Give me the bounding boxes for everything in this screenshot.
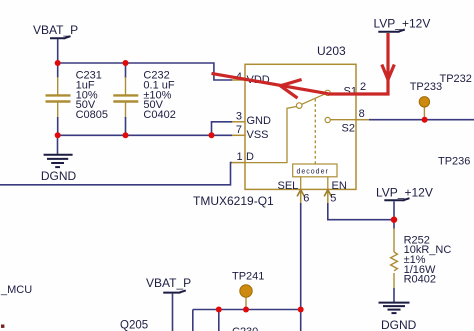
pin 5 EN (324, 180, 347, 204)
svg-text:TP241: TP241 (232, 270, 264, 282)
switch arm to S1 (302, 94, 326, 105)
pin 2 S1 (344, 81, 370, 98)
test point TP233 (410, 81, 442, 120)
pin 4 VDD (232, 71, 270, 86)
wire C232 bottom lead (125, 117, 127, 135)
svg-text:S2: S2 (342, 122, 355, 134)
wire C231 bottom lead (57, 117, 59, 135)
wire SEL net down (300, 203, 302, 310)
svg-text:R0402: R0402 (404, 274, 436, 286)
op-amp U203 body (193, 44, 356, 208)
capacitor C231 (46, 77, 71, 119)
wire branch to GND pin3 (212, 122, 233, 136)
svg-text:LVP_+12V: LVP_+12V (376, 186, 433, 200)
clipped label bottom-left (1, 325, 4, 328)
wire bottom left vertical (192, 310, 194, 331)
dashed control line (314, 99, 316, 164)
wire C231 top lead (57, 63, 59, 78)
label R252 values (404, 234, 452, 285)
pin 1 D (232, 151, 255, 163)
switch S1 contact circle (325, 90, 330, 95)
node C232 top (123, 60, 129, 66)
power port VBAT_P (top-left) (33, 23, 78, 39)
svg-text:TMUX6219-Q1: TMUX6219-Q1 (193, 194, 274, 208)
capacitor C232 (113, 77, 138, 119)
pin 7 VSS (232, 124, 269, 141)
svg-text:C0402: C0402 (143, 109, 175, 121)
svg-text:C0805: C0805 (76, 109, 108, 121)
label C231 values (76, 69, 108, 121)
highlighted red wire from LVP_+12V to S1 (212, 33, 389, 94)
pin 3 GND (232, 111, 271, 128)
svg-text:S1: S1 (344, 86, 357, 98)
decoder box (293, 164, 337, 177)
svg-text:Q205: Q205 (120, 319, 148, 331)
svg-text:8: 8 (359, 108, 365, 120)
decoder to SEL link (300, 177, 302, 190)
svg-text:VBAT_P: VBAT_P (33, 23, 78, 37)
svg-text:TP236: TP236 (438, 155, 470, 167)
svg-text:VBAT_P: VBAT_P (146, 276, 191, 290)
svg-text:5: 5 (330, 192, 336, 204)
svg-text:VSS: VSS (247, 129, 269, 141)
wire top rail (58, 63, 233, 80)
wire S2 net to right edge (369, 119, 474, 121)
switch S1 contact line (330, 93, 356, 95)
node SEL bottom (298, 307, 304, 313)
svg-text:DGND: DGND (381, 318, 417, 331)
svg-text:1: 1 (237, 151, 243, 163)
svg-text:DGND: DGND (41, 169, 77, 183)
svg-text:LVP_+12V: LVP_+12V (374, 17, 431, 31)
svg-text:2: 2 (360, 81, 366, 93)
test point TP241 (232, 270, 264, 309)
red arrow (up-left) on diagonal segment (280, 80, 301, 99)
node bottom-1 (216, 307, 222, 313)
node C231 bottom (55, 132, 61, 138)
switch S2 contact line (330, 119, 356, 121)
svg-text:C230: C230 (232, 326, 258, 331)
ground DGND (left) (41, 155, 77, 183)
svg-text:decoder: decoder (297, 169, 329, 176)
pin 6 SEL (278, 180, 310, 204)
svg-text:_MCU: _MCU (0, 284, 32, 296)
node LVP/EN/R252 (391, 217, 397, 223)
wire SEL net continues down (300, 310, 302, 331)
wire resistor to ground (393, 288, 395, 303)
label C232 values (143, 69, 175, 121)
node TP233 (422, 117, 428, 123)
power port LVP_+12V (top) (374, 17, 431, 32)
wire bottom rail to VSS pin7 (58, 134, 233, 136)
resistor R252 (391, 228, 398, 289)
wire EN net to LVP junction (328, 203, 394, 220)
power port LVP_+12V (right) (376, 186, 433, 220)
svg-text:U203: U203 (317, 44, 346, 58)
ground DGND (right) (379, 303, 417, 331)
wire VBAT_P stem (57, 39, 59, 63)
node VBAT/C231 top (55, 60, 61, 66)
node C232 bottom (123, 132, 129, 138)
wire junction to resistor (393, 220, 395, 229)
red arrow (down) on vertical segment (382, 65, 395, 80)
switch common path from D (245, 107, 296, 163)
wire DGND stem (left) (57, 135, 59, 154)
wire D net to left edge (0, 163, 232, 185)
svg-text:SEL: SEL (278, 180, 299, 192)
svg-text:6: 6 (303, 192, 309, 204)
svg-text:GND: GND (247, 115, 272, 127)
node GND branch (209, 132, 215, 138)
node TP241 (243, 307, 249, 313)
switch S2 contact circle (325, 117, 330, 122)
switch pole circle (296, 103, 302, 109)
wire bottom net horizontal (193, 309, 301, 311)
svg-text:EN: EN (332, 180, 347, 192)
svg-text:D: D (246, 151, 254, 163)
decoder to EN link (327, 177, 329, 190)
svg-text:TP233: TP233 (410, 81, 442, 93)
pin 8 S2 (342, 108, 370, 134)
wire C232 top lead (125, 63, 127, 78)
svg-text:7: 7 (236, 124, 242, 136)
svg-text:3: 3 (236, 111, 242, 123)
power port VBAT_P (bottom) (146, 276, 191, 331)
svg-text:TP232: TP232 (440, 73, 472, 85)
wire bottom vertical at junction (218, 310, 220, 331)
